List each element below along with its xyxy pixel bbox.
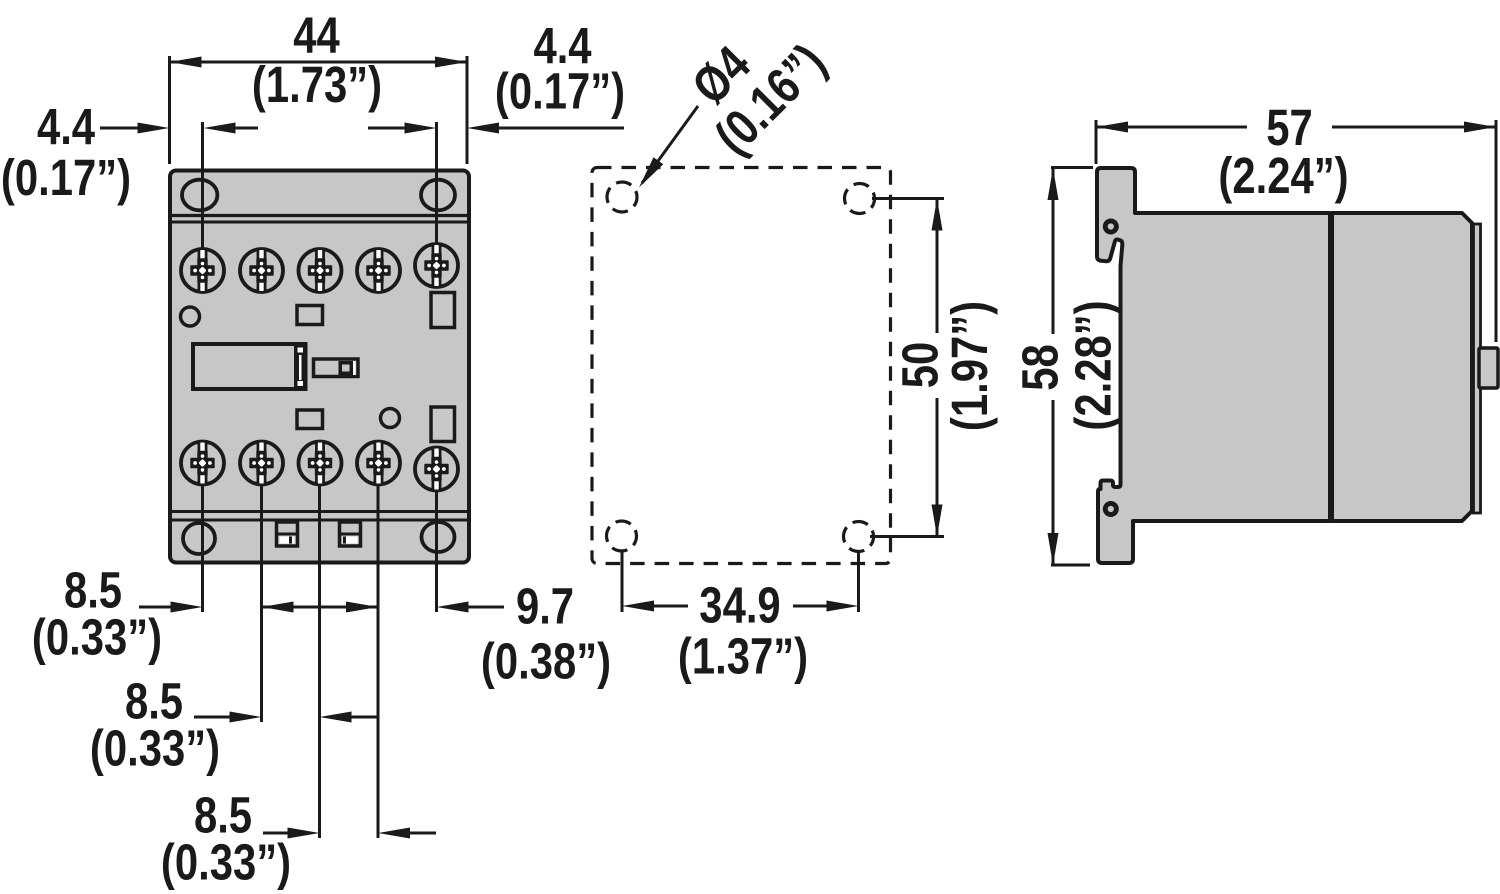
bottom extension line screw2 bbox=[260, 486, 263, 722]
bottom extension line screw1 bbox=[201, 485, 204, 612]
dim 58 extension line bottom bbox=[1051, 564, 1090, 567]
svg-text:(2.24”): (2.24”) bbox=[1218, 147, 1348, 204]
bottom extension line screw4 bbox=[377, 486, 380, 838]
svg-text:(1.37”): (1.37”) bbox=[678, 628, 808, 685]
terminal screw top row 2 bbox=[240, 249, 283, 292]
slider latch bbox=[314, 359, 359, 377]
drilling plan dashed outline bbox=[592, 168, 891, 564]
bottom extension line screw5 bbox=[435, 491, 438, 612]
dim 34.9 extension line left bbox=[621, 551, 624, 612]
terminal screw bottom row 2 bbox=[240, 442, 283, 485]
terminal screw bottom row 4 bbox=[357, 442, 400, 485]
terminal screw top row 1 bbox=[181, 249, 224, 292]
svg-text:4.4: 4.4 bbox=[37, 98, 95, 155]
terminal screw bottom row 1 bbox=[181, 442, 224, 485]
dim 57 extension line left bbox=[1095, 120, 1098, 164]
dim 8.5 row3 arrows bbox=[263, 832, 288, 835]
terminal screw bottom row 3 bbox=[299, 442, 342, 485]
svg-text:(0.17”): (0.17”) bbox=[495, 63, 625, 120]
terminal screw top row 4 bbox=[357, 249, 400, 292]
svg-text:50: 50 bbox=[892, 342, 949, 389]
dim 34.9 arrows bbox=[622, 601, 654, 612]
tall rect lower-right bbox=[431, 407, 455, 442]
small circle upper-left bbox=[181, 307, 200, 326]
side view thin strip bbox=[1474, 224, 1481, 513]
dim 34.9 extension line right bbox=[857, 551, 860, 612]
svg-text:(0.17”): (0.17”) bbox=[1, 149, 131, 206]
front view body bbox=[170, 171, 469, 563]
dim 4.4 left arrows bbox=[100, 127, 140, 130]
svg-text:(0.33”): (0.33”) bbox=[90, 720, 220, 777]
terminal screw top row 3 bbox=[299, 249, 342, 292]
svg-text:(0.33”): (0.33”) bbox=[32, 609, 162, 666]
svg-text:(1.97”): (1.97”) bbox=[941, 301, 998, 431]
front bottom band lines bbox=[170, 510, 469, 513]
coil window bbox=[193, 344, 306, 389]
svg-text:(0.33”): (0.33”) bbox=[161, 834, 291, 891]
screw1 extension line top bbox=[201, 122, 204, 248]
terminal screw top row 5 bbox=[415, 244, 458, 287]
mounting hole top-right bbox=[845, 184, 875, 214]
dim 57 extension line right bbox=[1495, 120, 1498, 342]
bottom band clip left bbox=[277, 522, 298, 546]
dim 58 line bbox=[1052, 168, 1055, 334]
side view right body bbox=[1332, 213, 1472, 521]
front top band lines bbox=[170, 214, 469, 217]
dim 50 extension line top bbox=[872, 197, 944, 200]
svg-text:9.7: 9.7 bbox=[516, 578, 574, 635]
svg-text:(0.38”): (0.38”) bbox=[481, 633, 611, 690]
side view rear tab bbox=[1479, 348, 1498, 388]
svg-text:58: 58 bbox=[1012, 344, 1069, 391]
dim 44 extension line left bbox=[168, 56, 171, 164]
svg-text:(2.28”): (2.28”) bbox=[1065, 300, 1122, 430]
side view din-rail flange and left body bbox=[1097, 168, 1330, 563]
mounting hole bottom-right bbox=[844, 522, 874, 552]
dim 44 extension line right bbox=[466, 56, 469, 164]
flange hole top bbox=[1103, 219, 1119, 235]
bottom-right oval hole bbox=[422, 522, 455, 552]
small rect upper-middle bbox=[297, 306, 323, 325]
dim 8.5 row2 arrows bbox=[194, 716, 230, 719]
tall rect upper-right bbox=[431, 293, 455, 328]
bottom-left oval hole bbox=[183, 523, 215, 554]
top-right oval hole bbox=[421, 180, 455, 211]
svg-text:(1.73”): (1.73”) bbox=[252, 56, 382, 113]
small circle lower-right bbox=[381, 409, 400, 428]
small rect lower-middle bbox=[297, 410, 323, 429]
flange hole bottom bbox=[1103, 501, 1119, 517]
mounting hole bottom-left bbox=[607, 521, 637, 551]
diameter leader line bbox=[642, 106, 698, 183]
bottom band clip right bbox=[340, 522, 361, 546]
dim 58 extension line top bbox=[1051, 166, 1093, 169]
dim 57 line bbox=[1096, 126, 1247, 129]
dim 9.7 arrows bbox=[437, 602, 469, 613]
dim 8.5 row1 arrows bbox=[139, 606, 172, 609]
bottom extension line screw3 bbox=[318, 486, 321, 838]
terminal screw bottom row 5 bbox=[415, 448, 458, 491]
diameter leader arrowhead bbox=[639, 157, 663, 187]
svg-text:44: 44 bbox=[293, 7, 340, 64]
dim 50 line bbox=[936, 199, 939, 334]
dim 44 line bbox=[170, 61, 468, 64]
top-left oval hole bbox=[182, 180, 217, 211]
dim 50 extension line bottom bbox=[870, 535, 944, 538]
mounting hole top-left bbox=[607, 182, 637, 212]
svg-text:34.9: 34.9 bbox=[699, 577, 780, 634]
screw5 extension line top bbox=[435, 122, 438, 243]
dim 4.4 right arrows bbox=[368, 127, 405, 130]
